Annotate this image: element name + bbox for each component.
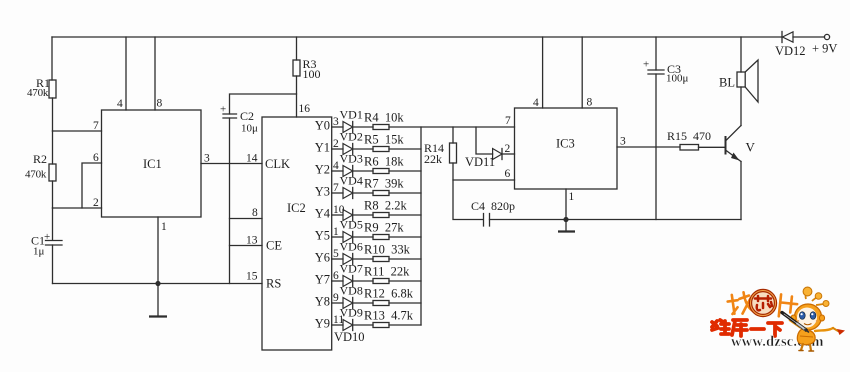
svg-text:+ 9V: + 9V	[812, 42, 837, 56]
diode VD1	[340, 108, 363, 133]
node Y2 output row: label and pin 4	[315, 160, 339, 177]
svg-text:R7 39k: R7 39k	[364, 177, 404, 191]
diode VD5 (Y4 row, unlabeled)	[343, 210, 353, 221]
svg-text:R12 6.8k: R12 6.8k	[364, 287, 414, 301]
node Y1 output row: label and pin 2	[315, 138, 339, 155]
wire: node pin7 down to R2	[52, 131, 54, 164]
svg-text:RS: RS	[266, 277, 281, 291]
svg-text:7: 7	[93, 120, 99, 132]
pin 3 (IC1)	[204, 153, 210, 165]
wire: Y4 row to summing bus	[389, 214, 421, 216]
diode VD2	[340, 130, 363, 155]
svg-text:4: 4	[533, 97, 539, 109]
svg-text:Y7: Y7	[315, 273, 330, 287]
speaker BL	[719, 60, 758, 102]
wire: R1 bottom to node at IC1 pin7 row	[52, 98, 54, 131]
resistor R3 100	[293, 57, 321, 81]
node Y0 output row: label and pin 3	[315, 116, 339, 133]
wire: Y7 from IC2 to diode	[332, 280, 343, 282]
diode VD11	[465, 149, 502, 170]
wire: pin2 node down to C1	[52, 208, 54, 240]
node Y6 output row: label and pin 5	[315, 248, 339, 265]
svg-text:R5 15k: R5 15k	[364, 133, 404, 147]
wire: IC3 pin3 to R15	[617, 146, 680, 148]
svg-text:4: 4	[117, 98, 123, 110]
svg-text:5: 5	[333, 248, 339, 260]
svg-text:3: 3	[204, 153, 210, 165]
wire: R15 to transistor base	[699, 146, 726, 148]
wire: diode to resistor R5	[353, 148, 373, 150]
wire: R3 bottom to IC2 pin16	[296, 76, 298, 117]
pin 1 (IC3)	[569, 191, 575, 203]
svg-text:2: 2	[505, 143, 511, 155]
node Y5 output row: label and pin 1	[315, 226, 339, 243]
wire: top rail to C3	[655, 37, 657, 70]
wire: +9V top supply rail	[52, 36, 782, 38]
svg-text:6: 6	[505, 168, 511, 180]
pin 4 (IC1)	[117, 98, 123, 110]
svg-text:IC1: IC1	[143, 157, 162, 171]
node: junction IC3 pin1 / ground rail	[563, 217, 568, 222]
svg-text:R11 22k: R11 22k	[364, 265, 410, 279]
op-amp/IC U: IC1 box	[102, 110, 202, 217]
svg-text:VD7: VD7	[340, 262, 363, 276]
wire: IC1 pin8 to top rail	[154, 37, 156, 110]
pin 6 (IC1)	[93, 152, 99, 164]
wire: VD11 to IC3 pin2	[502, 153, 515, 155]
svg-text:Y0: Y0	[315, 119, 330, 133]
capacitor C4 820p	[471, 199, 515, 226]
wire: diode to resistor R10	[353, 258, 373, 260]
wire: bus node down to R14	[452, 127, 454, 143]
wire: Y7 row to summing bus	[389, 280, 421, 282]
resistor R9 27k	[364, 221, 404, 240]
wire: Y4 from IC2 to diode	[332, 214, 343, 216]
diode VD7	[340, 262, 363, 287]
node Y7 output row: label and pin 6	[315, 270, 339, 287]
svg-text:14: 14	[246, 153, 258, 165]
diode VD6	[340, 240, 363, 265]
wire: IC3 pin8 to top rail	[581, 37, 583, 108]
wire: R2 bottom to pin2 row	[52, 181, 54, 208]
pin 14 / CLK label (IC2)	[246, 153, 290, 172]
svg-text:VD12: VD12	[775, 44, 806, 58]
pin 6 (IC3)	[505, 168, 511, 180]
svg-text:470k: 470k	[27, 87, 49, 99]
svg-text:BL: BL	[719, 76, 735, 90]
wire: IC1 pin4 to top rail	[125, 37, 127, 110]
svg-text:R2: R2	[33, 152, 47, 166]
wire: Y2 from IC2 to diode	[332, 170, 343, 172]
pin 8 (IC2)	[252, 207, 258, 219]
wire: Y1 from IC2 to diode	[332, 148, 343, 150]
pin 2 (IC3)	[505, 143, 511, 155]
svg-text:VD6: VD6	[340, 240, 363, 254]
wire: emitter down to ground rail	[740, 162, 742, 220]
svg-text:8: 8	[252, 207, 258, 219]
resistor R14 22k	[424, 141, 457, 166]
svg-text:R8 2.2k: R8 2.2k	[364, 199, 407, 213]
wire: C1 bottom to ground rail	[52, 245, 54, 284]
wire: C4 to bottom ground rail	[490, 219, 742, 221]
svg-text:VD2: VD2	[340, 130, 363, 144]
svg-text:10μ: 10μ	[241, 123, 258, 135]
wire: R14 bottom through pin6 node to C4	[453, 163, 483, 220]
wire: Y9 row to summing bus	[389, 324, 421, 326]
svg-text:100: 100	[303, 67, 321, 81]
resistor R15 470	[667, 129, 711, 150]
resistor R11 22k	[364, 265, 410, 284]
resistor R8 2.2k	[364, 199, 407, 218]
resistor R13 4.7k	[364, 309, 414, 328]
resistor R5 15k	[364, 133, 404, 152]
svg-text:R9 27k: R9 27k	[364, 221, 404, 235]
svg-text:IC2: IC2	[287, 201, 306, 215]
wire: pin2 line to IC1	[53, 207, 102, 209]
svg-text:15: 15	[246, 271, 258, 283]
pin 4 (IC3)	[533, 97, 539, 109]
svg-text:2: 2	[93, 197, 99, 209]
node Y4 output row: label and pin 10	[315, 204, 345, 221]
decorative watermark: dzsc.com logo	[712, 287, 845, 351]
wire: Y2 row to summing bus	[389, 170, 421, 172]
wire: C3 bottom to ground rail	[655, 74, 657, 220]
svg-text:13: 13	[246, 235, 258, 247]
wire: IC1 pin3 to IC2 CLK	[201, 163, 262, 165]
wire: diode to resistor R12	[353, 302, 373, 304]
svg-text:+: +	[220, 104, 226, 116]
wire: Y8 row to summing bus	[389, 302, 421, 304]
wire: diode to resistor R9	[353, 236, 373, 238]
wire: pin7 line to IC1	[53, 130, 102, 132]
resistor R1 470k	[27, 76, 56, 99]
wire: speaker top to rail	[740, 37, 742, 72]
wire: Y3 row to summing bus	[389, 192, 421, 194]
svg-text:+: +	[44, 231, 50, 243]
wire: VD11 branch from pin7 row	[476, 127, 493, 154]
svg-text:1: 1	[161, 221, 167, 233]
svg-text:R10 33k: R10 33k	[364, 243, 411, 257]
pin 15 / RS label (IC2)	[246, 271, 281, 291]
svg-text:16: 16	[299, 103, 311, 115]
wire: Y0 from IC2 to diode	[332, 126, 343, 128]
svg-text:22k: 22k	[424, 152, 442, 166]
wire: diode to resistor R11	[353, 280, 373, 282]
svg-text:7: 7	[505, 115, 511, 127]
diode VD8	[340, 284, 363, 309]
svg-text:VD9: VD9	[340, 306, 363, 320]
wire: Y6 from IC2 to diode	[332, 258, 343, 260]
ground (right)	[558, 220, 575, 232]
svg-text:R15 470: R15 470	[667, 129, 711, 143]
svg-text:CE: CE	[266, 239, 282, 253]
pin 1 (IC1)	[161, 221, 167, 233]
wire: Y5 from IC2 to diode	[332, 236, 343, 238]
svg-text:Y5: Y5	[315, 229, 330, 243]
wire: Y1 row to summing bus	[389, 148, 421, 150]
node Y3 output row: label and pin 7	[315, 182, 339, 199]
svg-text:3: 3	[620, 136, 626, 148]
svg-text:1: 1	[333, 226, 339, 238]
svg-text:6: 6	[93, 152, 99, 164]
svg-text:Y1: Y1	[315, 141, 330, 155]
ground (left)	[149, 284, 167, 317]
wire: Y5 row to summing bus	[389, 236, 421, 238]
wire: diode to resistor R8	[353, 214, 373, 216]
pin 3 (IC3)	[620, 136, 626, 148]
svg-text:Y2: Y2	[315, 163, 330, 177]
node: +9V terminal	[812, 34, 837, 55]
timer IC: IC3 box	[515, 108, 618, 189]
wire: pin6 to pin2 vertical link	[82, 163, 102, 208]
svg-text:R4 10k: R4 10k	[364, 111, 404, 125]
pin 8 (IC1)	[157, 98, 163, 110]
pin 8 (IC3)	[587, 97, 593, 109]
diode VD9	[340, 306, 363, 331]
svg-text:2: 2	[333, 138, 339, 150]
resistor R12 6.8k	[364, 287, 414, 306]
wire: diode to resistor R13	[353, 324, 373, 326]
svg-text:VD4: VD4	[340, 174, 363, 188]
wire: Y9 from IC2 to diode	[332, 324, 343, 326]
counter IC: IC2 box	[262, 117, 332, 350]
diode VD3	[340, 152, 363, 177]
wire: IC3 pin4 to top rail	[542, 37, 544, 108]
svg-text:C4 820p: C4 820p	[471, 199, 515, 213]
svg-text:Y6: Y6	[315, 251, 330, 265]
svg-text:8: 8	[157, 98, 163, 110]
pin 7 (IC1)	[93, 120, 99, 132]
wire: Y3 from IC2 to diode	[332, 192, 343, 194]
svg-text:Y3: Y3	[315, 185, 330, 199]
svg-text:1: 1	[569, 191, 575, 203]
wire: IC3 pin1 to ground rail	[565, 189, 567, 220]
svg-text:8: 8	[587, 97, 593, 109]
node Y9 output row: label and pin 11	[315, 314, 345, 331]
svg-text:VD1: VD1	[340, 108, 363, 122]
wire: IC1 pin1 down to ground rail	[157, 217, 159, 284]
svg-text:Y4: Y4	[315, 207, 331, 221]
wire: Y8 from IC2 to diode	[332, 302, 343, 304]
wire: Y0 row to IC3 pin7	[389, 126, 515, 128]
svg-text:VD5: VD5	[340, 218, 363, 232]
svg-text:R6 18k: R6 18k	[364, 155, 404, 169]
capacitor C1 1u (electrolytic)	[31, 231, 62, 258]
svg-text:V: V	[746, 140, 756, 155]
pin 2 (IC1)	[93, 197, 99, 209]
resistor R2 470k	[25, 152, 56, 181]
wire: bottom-left ground rail to IC2 RS	[53, 283, 263, 285]
svg-text:VD8: VD8	[340, 284, 363, 298]
diode VD5	[340, 218, 363, 243]
wire: top rail to R3	[296, 37, 298, 60]
node: junction IC1 pin1 / ground rail	[155, 281, 160, 286]
wire: IC2 pin8 link	[230, 218, 263, 220]
wire: Y6 row to summing bus	[389, 258, 421, 260]
diode VD12	[775, 32, 825, 59]
svg-text:VD3: VD3	[340, 152, 363, 166]
svg-text:IC3: IC3	[556, 137, 575, 151]
svg-text:100μ: 100μ	[666, 73, 689, 85]
svg-text:Y8: Y8	[315, 295, 330, 309]
svg-text:3: 3	[333, 116, 339, 128]
svg-text:R13 4.7k: R13 4.7k	[364, 309, 414, 323]
svg-text:470k: 470k	[25, 169, 47, 181]
wire: IC3 pin6 line	[453, 179, 515, 181]
wire: left vertical branch from rail to R1	[51, 37, 53, 80]
wire: C2 bottom vertical bus to RS row	[229, 118, 231, 284]
label VD10 (below Y9 diode)	[334, 330, 365, 344]
pin 7 (IC3)	[505, 115, 511, 127]
resistor R10 33k	[364, 243, 411, 262]
capacitor C3 100u (electrolytic)	[643, 59, 689, 85]
wire: summing bus vertical	[420, 127, 422, 325]
svg-text:+: +	[643, 59, 649, 71]
svg-text:CLK: CLK	[265, 157, 290, 171]
node Y8 output row: label and pin 9	[315, 292, 339, 309]
svg-text:6: 6	[333, 270, 339, 282]
wire: diode to resistor R7	[353, 192, 373, 194]
wire: IC2 CE link	[230, 245, 263, 247]
svg-text:9: 9	[333, 292, 339, 304]
svg-text:VD11: VD11	[465, 155, 495, 169]
wire: collector up to speaker	[740, 87, 742, 126]
svg-text:VD10: VD10	[334, 330, 365, 344]
svg-text:Y9: Y9	[315, 317, 330, 331]
diode VD4	[340, 174, 363, 199]
resistor R6 18k	[364, 155, 404, 174]
wire: diode to resistor R6	[353, 170, 373, 172]
svg-text:1μ: 1μ	[33, 246, 45, 258]
pin 13 / CE label (IC2)	[246, 235, 282, 253]
wire: C2 top to R3/pin16 net	[230, 94, 297, 114]
svg-text:C2: C2	[240, 109, 254, 123]
svg-text:4: 4	[333, 160, 339, 172]
pin 16 (IC2)	[299, 103, 311, 115]
capacitor C2 10u (electrolytic)	[220, 104, 258, 135]
wire: diode to resistor R4	[353, 126, 373, 128]
transistor V (NPN)	[726, 126, 756, 162]
resistor R7 39k	[364, 177, 404, 196]
resistor R4 10k	[364, 111, 404, 130]
svg-text:7: 7	[333, 182, 339, 194]
